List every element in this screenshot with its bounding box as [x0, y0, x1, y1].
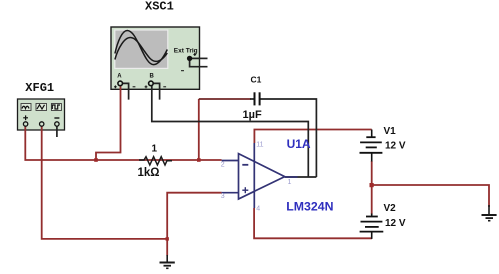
svg-text:1: 1	[288, 179, 292, 186]
svg-text:LM324N: LM324N	[286, 200, 333, 214]
svg-text:12 V: 12 V	[385, 141, 406, 152]
svg-text:A: A	[117, 74, 122, 80]
svg-text:C1: C1	[251, 75, 262, 85]
svg-text:3: 3	[221, 193, 225, 200]
svg-text:B: B	[150, 74, 155, 80]
svg-text:XFG1: XFG1	[25, 81, 54, 95]
svg-text:U1A: U1A	[287, 137, 311, 151]
svg-text:Ext Trig: Ext Trig	[174, 48, 198, 55]
svg-text:V1: V1	[384, 126, 397, 137]
svg-text:12 V: 12 V	[385, 218, 406, 229]
svg-text:1µF: 1µF	[243, 109, 262, 121]
svg-text:4: 4	[256, 206, 260, 213]
svg-text:V2: V2	[384, 203, 397, 214]
svg-text:2: 2	[221, 162, 225, 169]
svg-text:1: 1	[152, 144, 158, 155]
svg-text:11: 11	[256, 142, 263, 149]
svg-text:XSC1: XSC1	[145, 0, 174, 14]
svg-text:1kΩ: 1kΩ	[138, 167, 160, 179]
